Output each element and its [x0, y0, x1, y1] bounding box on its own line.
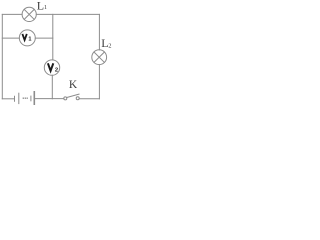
- wire top-left segment: [2, 13, 22, 15]
- wire left vertical: [1, 14, 3, 98]
- voltmeter V2 letter V: [48, 63, 53, 71]
- wire switch to battery: [35, 98, 64, 100]
- svg-text:1: 1: [28, 37, 31, 43]
- svg-text:L1: L1: [37, 0, 47, 12]
- lamp L2: [92, 50, 107, 65]
- wire right vertical upper: [98, 14, 100, 50]
- svg-text:L2: L2: [101, 36, 111, 50]
- wire V1 branch right: [35, 37, 53, 39]
- wire bottom right segment: [79, 98, 99, 100]
- wire right vertical lower: [98, 65, 100, 99]
- voltmeter V1 letter V: [22, 34, 26, 40]
- wire V1 branch left: [2, 37, 19, 39]
- wire top middle segment: [36, 13, 99, 15]
- lamp L1: [22, 7, 36, 21]
- voltmeter V1: [19, 30, 35, 46]
- wire V2 to bottom: [51, 75, 53, 99]
- wire battery to corner: [2, 98, 14, 100]
- switch K: [64, 94, 79, 100]
- wire middle vertical: [52, 14, 54, 60]
- svg-text:K: K: [69, 79, 78, 91]
- svg-text:2: 2: [55, 67, 58, 73]
- voltmeter V2: [44, 60, 59, 75]
- battery B1: [15, 92, 35, 104]
